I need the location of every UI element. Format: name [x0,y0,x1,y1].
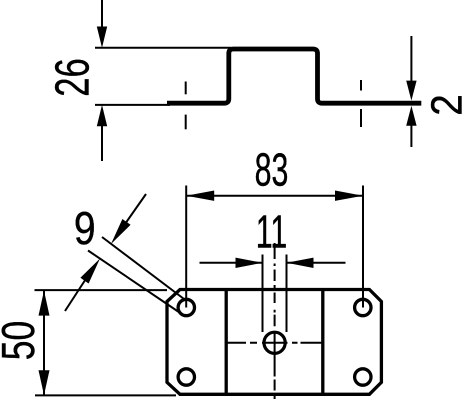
bend line right [321,291,324,393]
83 dim: right extension line [362,186,364,308]
hat profile (thick section line) [167,49,421,103]
50 dim: bottom extension line [35,394,176,396]
svg-text:83: 83 [255,145,289,196]
arrowhead 11 left (points right) [236,258,263,268]
extension line top (26 dim) [95,47,231,49]
50 dim: top extension line [35,289,168,291]
svg-text:9: 9 [74,203,96,255]
corner hole bottom-left [178,369,194,385]
arrowhead 11 right (points left) [287,258,314,268]
11 dim line left segment [200,262,263,264]
11 dim line right segment [287,262,346,264]
arrowhead 9 upper (points down-left) [111,219,131,244]
arrowhead 50 top (points up) [39,291,50,316]
corner hole top-right [355,299,371,315]
83 dim: left extension line [185,186,187,308]
dim line 2 upper tail [410,36,412,83]
11 dim: right extension line [286,255,288,333]
arrowhead 2 top (points down) [406,81,416,101]
hole centerline right (profile) [360,80,362,91]
9 dim lower leader tail [65,280,86,312]
arrowhead 83 right [335,191,363,201]
9 dim upper leader tail [125,194,146,224]
11 dim: left extension line [262,255,264,333]
horizontal centerline of center hole [226,342,323,344]
svg-text:2: 2 [421,94,463,116]
arrowhead 26 bottom (points up) [97,105,107,126]
dim line 26 lower tail [101,124,103,161]
dim line 2 lower tail [410,124,412,147]
center hole [264,332,285,353]
arrowhead 83 left [186,191,214,201]
svg-text:11: 11 [256,207,288,258]
bend line left [225,291,228,393]
dim line 26 upper tail [101,0,103,30]
50 dimension line [43,291,45,396]
83 dimension line [186,195,363,197]
vertical centerline of center hole [274,243,276,399]
plate outline with chamfered corners [167,290,381,395]
9 dim: lower tangent extension line [88,251,181,314]
corner hole bottom-right [355,369,371,385]
arrowhead 9 lower (points up-right) [80,259,100,284]
arrowhead 26 top (points down) [97,27,107,48]
arrowhead 2 bottom (points up) [406,106,416,126]
svg-text:50: 50 [0,321,44,360]
svg-text:26: 26 [45,58,99,96]
9 dim: upper tangent extension line [102,237,186,301]
extension line bottom (26 dim) [95,104,170,106]
hole centerline left (profile) [185,82,187,95]
corner hole top-left [178,299,194,315]
arrowhead 50 bottom (points down) [39,370,50,395]
